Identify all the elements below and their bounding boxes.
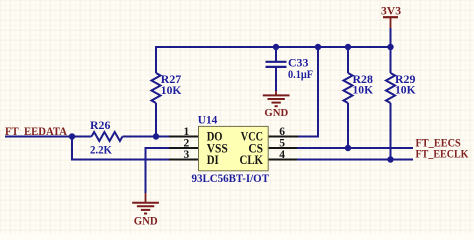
svg-text:4: 4 <box>279 149 285 161</box>
svg-text:5: 5 <box>279 138 285 150</box>
wire R28 bottom <box>347 103 349 148</box>
wire R27 bottom <box>155 103 157 137</box>
wire C33 bottom <box>275 68 277 91</box>
junction R27/pin1 wire <box>153 133 159 139</box>
svg-text:6: 6 <box>279 126 285 138</box>
svg-text:3V3: 3V3 <box>381 3 401 17</box>
svg-text:U14: U14 <box>198 113 218 127</box>
wire VSS route <box>146 148 171 193</box>
wire pin4 to FT_EECLK <box>297 159 413 161</box>
svg-text:10K: 10K <box>353 82 374 96</box>
ground below VSS <box>132 193 159 228</box>
svg-text:10K: 10K <box>161 83 182 97</box>
svg-text:2: 2 <box>184 138 190 150</box>
wire top rail <box>156 46 391 48</box>
svg-text:CLK: CLK <box>240 153 264 167</box>
wire R28 top <box>347 47 349 73</box>
junction R29/CLK wire <box>387 156 393 162</box>
svg-text:1: 1 <box>184 126 190 138</box>
resistor R29 <box>386 72 416 103</box>
resistor R26 <box>90 118 123 156</box>
resistor R27 <box>152 72 183 103</box>
power 3V3 <box>381 3 401 28</box>
junction VCC column/top rail <box>315 44 321 50</box>
pin 1 stub <box>169 136 199 138</box>
svg-text:93LC56BT-I/OT: 93LC56BT-I/OT <box>192 171 270 185</box>
junction R28/CS wire <box>345 145 351 151</box>
junction FT_EEDATA/DI drop <box>69 133 75 139</box>
wire R26 to pin 1 <box>123 136 171 138</box>
capacitor C33 <box>266 55 314 81</box>
wire VCC column <box>297 47 318 137</box>
resistor R28 <box>344 72 374 103</box>
pin 5 stub <box>268 147 298 149</box>
wire DI route <box>72 137 170 160</box>
pin 6 stub <box>268 136 298 138</box>
svg-text:R26: R26 <box>90 118 110 132</box>
svg-text:10K: 10K <box>395 82 416 96</box>
junction C33/top rail <box>273 44 279 50</box>
wire 3V3 to top rail <box>390 28 392 47</box>
pin 2 stub <box>169 147 199 149</box>
wire FT_EEDATA left segment <box>5 136 92 138</box>
pin 3 stub <box>169 159 199 161</box>
svg-text:2.2K: 2.2K <box>90 142 113 156</box>
junction R29/top rail <box>387 44 393 50</box>
svg-text:GND: GND <box>264 107 288 119</box>
wire pin5 to FT_EECS <box>297 147 413 149</box>
wire R29 bottom <box>390 103 392 160</box>
wire C33 top <box>275 47 277 61</box>
svg-text:3: 3 <box>184 149 190 161</box>
svg-text:0.1µF: 0.1µF <box>288 67 313 81</box>
junction R28/top rail <box>345 44 351 50</box>
ground below C33 <box>263 91 290 119</box>
wire R27 top <box>155 46 157 73</box>
svg-text:FT_EECLK: FT_EECLK <box>416 147 470 161</box>
svg-text:DI: DI <box>207 153 219 167</box>
IC U14 93LC56BT-I/OT (EEPROM) body <box>192 113 270 185</box>
svg-text:GND: GND <box>134 216 158 228</box>
pin 4 stub <box>268 159 298 161</box>
wire R29 top <box>390 47 392 73</box>
